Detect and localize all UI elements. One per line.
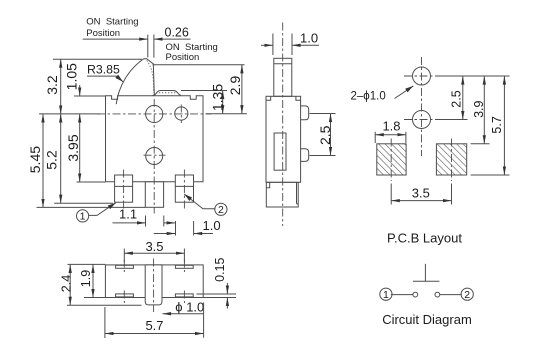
svg-text:ON Starting: ON Starting [86, 16, 138, 27]
svg-text:1.8: 1.8 [382, 119, 400, 134]
svg-text:ϕ 1.0: ϕ 1.0 [175, 300, 204, 315]
svg-text:Circuit Diagram: Circuit Diagram [382, 312, 472, 327]
svg-text:1: 1 [80, 211, 86, 223]
svg-text:2.4: 2.4 [59, 275, 73, 292]
svg-text:R3.85: R3.85 [87, 62, 120, 76]
svg-text:2: 2 [464, 289, 470, 301]
svg-text:0.15: 0.15 [213, 257, 227, 281]
svg-text:Position: Position [86, 28, 120, 39]
svg-text:5.45: 5.45 [27, 146, 43, 173]
svg-text:2: 2 [218, 204, 224, 216]
svg-text:3.5: 3.5 [412, 186, 430, 201]
svg-text:1: 1 [383, 289, 389, 301]
svg-text:1.05: 1.05 [63, 63, 79, 90]
svg-text:3.2: 3.2 [44, 75, 60, 95]
svg-text:0.26: 0.26 [165, 26, 189, 40]
svg-text:5.7: 5.7 [490, 116, 504, 133]
svg-text:2.5: 2.5 [449, 90, 463, 107]
svg-text:3.5: 3.5 [145, 239, 163, 254]
svg-text:1.35: 1.35 [210, 84, 226, 111]
svg-text:3.9: 3.9 [472, 100, 486, 117]
svg-text:3.95: 3.95 [65, 134, 81, 161]
svg-text:Position: Position [166, 52, 200, 63]
svg-text:P.C.B Layout: P.C.B Layout [387, 231, 462, 246]
svg-text:1.9: 1.9 [79, 270, 93, 287]
svg-text:1.0: 1.0 [203, 218, 221, 233]
svg-text:5.2: 5.2 [44, 150, 60, 170]
svg-text:5.7: 5.7 [145, 318, 163, 333]
svg-text:1.1: 1.1 [119, 207, 137, 222]
svg-text:2–ϕ1.0: 2–ϕ1.0 [351, 91, 386, 103]
svg-text:2.9: 2.9 [227, 76, 243, 96]
svg-text:1.0: 1.0 [300, 31, 318, 46]
svg-text:2.5: 2.5 [317, 125, 333, 145]
